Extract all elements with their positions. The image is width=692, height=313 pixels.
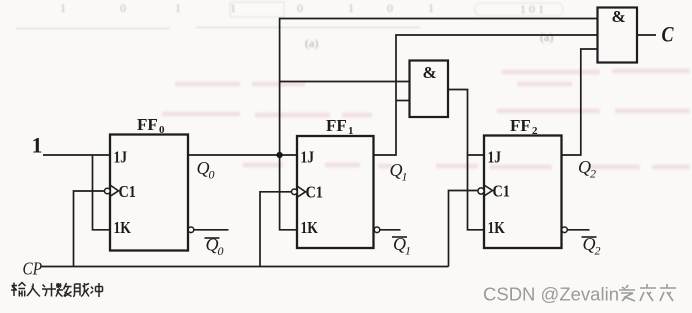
svg-text:1: 1: [230, 1, 236, 15]
output bubble Q-bar (FF1): [374, 227, 380, 233]
svg-text:1 0 1: 1 0 1: [520, 2, 544, 16]
watermark Chinese 爱灰灰 (gray), drawn strokes: [619, 284, 676, 301]
output bubble Q-bar (FF0): [188, 227, 194, 233]
wire: FF0 J-K tie: [93, 155, 111, 230]
svg-text:C1: C1: [119, 183, 137, 201]
svg-text:FF: FF: [137, 115, 158, 134]
wire: Q0 tap to G1 input 1: [280, 81, 410, 83]
flip-flop FF1 box: [297, 136, 374, 248]
label FF0: [137, 115, 165, 136]
pin 1J (FF0): [114, 148, 128, 167]
watermark CSDN @Zevalin (gray): [483, 284, 619, 305]
caption: Chinese 输入计数脉冲 (input counting pulse), drawn strokes: [11, 283, 103, 298]
wire: CP bus: [41, 266, 449, 268]
label output C: [662, 23, 675, 47]
svg-text:1: 1: [348, 1, 354, 15]
faint pink bleed-through text rows: [162, 71, 690, 167]
svg-text:0: 0: [159, 124, 165, 136]
svg-text:0: 0: [218, 244, 224, 258]
flip-flop FF0 box: [110, 135, 188, 251]
pin C1 (FF2): [493, 182, 511, 200]
svg-text:(a): (a): [305, 36, 318, 50]
svg-text:1: 1: [348, 125, 354, 137]
wire: FF0 C1 to CP bus: [74, 191, 105, 267]
svg-text:0: 0: [209, 168, 215, 182]
svg-text:1: 1: [32, 133, 43, 158]
pin 1K (FF0): [114, 219, 131, 238]
label Q1-bar with overline: [392, 234, 411, 258]
svg-text:1K: 1K: [488, 219, 505, 238]
wire: FF1 J-K tie: [280, 155, 297, 230]
svg-text:1: 1: [60, 1, 66, 15]
label FF2: [510, 116, 538, 137]
wire Q2: FF2 output up to G2 input 3: [562, 49, 598, 155]
svg-text:0: 0: [387, 1, 393, 15]
clock inversion bubble (FF0): [105, 188, 111, 194]
svg-text:1K: 1K: [301, 219, 318, 238]
label Q1: [390, 160, 408, 184]
svg-text:1K: 1K: [114, 219, 131, 238]
wire Q1: FF1 output up to G2 input 2: [374, 35, 598, 155]
faint scan artifact: gray rule top-left: [16, 2, 563, 29]
svg-text:0: 0: [120, 1, 126, 15]
svg-text:2: 2: [590, 167, 596, 181]
wire: FF2 J-K tie: [468, 155, 485, 230]
pin C1 (FF1): [306, 183, 324, 201]
label Q0-bar with overline: [205, 235, 224, 259]
label CP: [23, 258, 43, 278]
svg-text:(a): (a): [540, 30, 553, 44]
svg-text:1J: 1J: [301, 148, 315, 167]
svg-text:1: 1: [428, 1, 434, 15]
junction dot node Q0: [277, 152, 283, 158]
AND gate G1 box: [410, 61, 449, 118]
svg-text:0: 0: [297, 1, 303, 15]
wire: G2 output C: [637, 34, 656, 36]
clock wedge (FF0): [110, 185, 119, 196]
clock inversion bubble (FF1): [292, 189, 298, 195]
wire stub Q1-bar: [380, 229, 401, 231]
wire: Q0 riser up and top line to G2 input 1: [280, 19, 598, 156]
svg-text:1: 1: [405, 244, 411, 258]
faint scan artifact: gray table digits row at top: [60, 1, 544, 16]
label & (G2): [612, 7, 626, 26]
faint scan artifact: gray (a) captions: [305, 30, 553, 50]
svg-text:1: 1: [402, 170, 408, 184]
svg-text:C: C: [662, 23, 675, 47]
label Q2: [578, 157, 596, 181]
pin 1J (FF2): [488, 148, 502, 167]
wire stub Q0-bar: [194, 229, 229, 231]
svg-text:FF: FF: [326, 116, 347, 135]
input constant 1 label: [32, 133, 43, 158]
wire Q0: FF0 output to FF1 1J: [188, 154, 297, 156]
wire: input 1 to FF0 1J: [43, 154, 110, 156]
pin 1J (FF1): [301, 148, 315, 167]
wire stub Q2-bar: [568, 229, 590, 231]
wire: FF2 C1 to CP bus: [449, 191, 479, 267]
svg-text:C1: C1: [306, 183, 324, 201]
clock wedge (FF1): [297, 186, 306, 197]
output bubble Q-bar (FF2): [562, 227, 568, 233]
svg-text:C1: C1: [493, 182, 511, 200]
pin 1K (FF2): [488, 219, 505, 238]
wire: FF1 C1 to CP bus: [260, 192, 292, 267]
svg-text:&: &: [423, 63, 437, 82]
svg-text:2: 2: [532, 125, 538, 137]
label Q0: [197, 158, 215, 182]
wire: G1 output to FF2 1J: [448, 90, 484, 156]
clock inversion bubble (FF2): [478, 188, 484, 194]
svg-text:1: 1: [175, 1, 181, 15]
flip-flop FF2 box: [484, 136, 562, 249]
pin C1 (FF0): [119, 183, 137, 201]
label Q2-bar with overline: [582, 234, 601, 258]
clock wedge (FF2): [484, 185, 493, 196]
svg-text:CP: CP: [23, 258, 43, 278]
wire: Q1 tap to G1 input 2: [396, 100, 410, 102]
svg-text:FF: FF: [510, 116, 531, 135]
svg-text:1J: 1J: [488, 148, 502, 167]
svg-text:2: 2: [595, 244, 601, 258]
label & (G1): [423, 63, 437, 82]
label FF1: [326, 116, 354, 137]
svg-text:CSDN @Zevalin: CSDN @Zevalin: [483, 284, 619, 305]
svg-text:&: &: [612, 7, 626, 26]
pin 1K (FF1): [301, 219, 318, 238]
svg-text:1J: 1J: [114, 148, 128, 167]
AND gate G2 box: [598, 8, 638, 63]
